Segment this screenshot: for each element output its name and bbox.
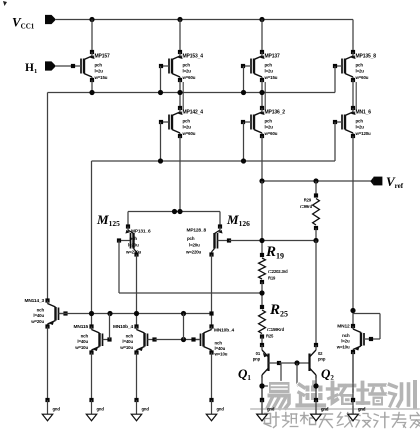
wire gate bus2 bbox=[92, 160, 336, 162]
svg-text:R19: R19 bbox=[268, 276, 276, 281]
svg-text:MP142_4: MP142_4 bbox=[183, 110, 204, 116]
wire M126 gate line bbox=[229, 240, 316, 242]
svg-text:MN10b_4: MN10b_4 bbox=[214, 328, 234, 334]
svg-text:l=2u: l=2u bbox=[265, 69, 274, 74]
svg-text:01: 01 bbox=[256, 351, 261, 356]
transistor MN115 bbox=[74, 324, 112, 355]
svg-text:Vref: Vref bbox=[386, 174, 404, 190]
svg-text:pnp: pnp bbox=[253, 357, 261, 362]
watermark big text yi-di-tuo-pei-xun bbox=[268, 382, 416, 409]
transistor MN114_3 bbox=[25, 298, 68, 329]
svg-text:MP131_6: MP131_6 bbox=[131, 229, 151, 235]
svg-text:l=2u: l=2u bbox=[183, 125, 192, 130]
bias line end terminal bbox=[209, 311, 213, 315]
svg-text:w=60u: w=60u bbox=[355, 75, 369, 80]
junction bus2-MP142_4 gate bbox=[158, 158, 163, 163]
transistor MP157 bbox=[71, 50, 110, 82]
svg-text:w=120u: w=120u bbox=[355, 131, 372, 136]
svg-text:MP137: MP137 bbox=[265, 54, 280, 60]
wire gate bus1 bbox=[48, 92, 336, 94]
wire M125 gate to R node bbox=[119, 292, 262, 294]
junction R19-R25 node bbox=[259, 290, 264, 295]
svg-text:gnd: gnd bbox=[142, 407, 150, 412]
svg-text:l=20u: l=20u bbox=[189, 243, 200, 248]
resistor R19 bbox=[259, 253, 289, 284]
svg-text:nch: nch bbox=[126, 334, 134, 339]
svg-text:nch: nch bbox=[215, 341, 223, 346]
wire MP136_2 drain bbox=[261, 136, 263, 181]
svg-text:w=10u: w=10u bbox=[119, 345, 133, 350]
ground under MN10b b bbox=[206, 398, 224, 421]
svg-text:gnd: gnd bbox=[97, 407, 105, 412]
label Q2 bbox=[321, 366, 334, 382]
wire MP136_2 gate stub bbox=[243, 122, 245, 161]
wire rail to MP137 bbox=[261, 20, 263, 53]
resistor R29 bbox=[300, 193, 319, 230]
svg-text:Q1: Q1 bbox=[238, 366, 251, 382]
junction bus1-MP137 drain bbox=[259, 90, 264, 95]
wire Q1 tie to collector bbox=[262, 385, 281, 387]
junction bus1-MP153_4 gate bbox=[158, 90, 163, 95]
wire M125 gate down bbox=[118, 241, 120, 294]
svg-text:gnd: gnd bbox=[53, 407, 61, 412]
svg-text:w=60u: w=60u bbox=[182, 131, 196, 136]
wire MP137 drain bbox=[261, 80, 263, 108]
svg-text:pch: pch bbox=[130, 236, 138, 241]
ground under MN12 bbox=[348, 398, 366, 421]
transistor MP142_4 bbox=[159, 106, 203, 138]
wire MP137 gate stub bbox=[243, 66, 245, 93]
wire Vref line bbox=[262, 180, 374, 182]
wire MN12 loop top bbox=[353, 313, 380, 315]
wire M126 drain down bbox=[211, 255, 213, 327]
svg-text:VCC1: VCC1 bbox=[12, 15, 35, 31]
ground under Q2 (over watermark) bbox=[311, 398, 329, 421]
svg-text:pch: pch bbox=[95, 63, 103, 68]
wire MN10b a source to gnd bbox=[136, 353, 138, 401]
transistor Q1 (pnp) bbox=[253, 343, 269, 378]
svg-text:r=2202.3rd: r=2202.3rd bbox=[268, 269, 288, 274]
svg-text:R29: R29 bbox=[304, 198, 312, 203]
junction bus1-MP153_4 drain bbox=[177, 90, 182, 95]
ground under Q1 bbox=[257, 398, 275, 421]
wire MN1_6 gate stub bbox=[334, 122, 336, 161]
wire R25 to Q1 bbox=[261, 337, 263, 346]
svg-text:gnd: gnd bbox=[358, 407, 366, 412]
junction Vref-R29 bbox=[313, 178, 318, 183]
svg-text:w=15u: w=15u bbox=[94, 75, 108, 80]
svg-text:w=60u: w=60u bbox=[182, 75, 196, 80]
ground under MN12 (over watermark) bbox=[348, 398, 366, 421]
port H1 bbox=[25, 61, 56, 75]
transistor MN1_6 bbox=[333, 106, 371, 138]
label Q1 bbox=[238, 366, 251, 382]
svg-text:pnp: pnp bbox=[318, 357, 326, 362]
wire M125 drain down bbox=[136, 255, 138, 327]
watermark small text she-pin-he-tian-xian-she-ji-zhuan-jia bbox=[264, 413, 420, 428]
svg-text:w=220u: w=220u bbox=[185, 250, 202, 255]
svg-text:pch: pch bbox=[187, 236, 195, 241]
junction bias-MN115 gate bbox=[107, 311, 112, 316]
label R25 bbox=[269, 302, 288, 319]
top-left scan artifact bbox=[3, 1, 7, 6]
wire MP157 drain bbox=[91, 80, 93, 93]
wire Q1 collector to gnd (over watermark) bbox=[259, 375, 264, 400]
svg-text:MN12: MN12 bbox=[337, 324, 350, 330]
wire Q2 tie to collector bbox=[297, 385, 316, 387]
wire MN12 source to gnd (over watermark) bbox=[352, 352, 354, 400]
svg-text:r=159Krd: r=159Krd bbox=[267, 327, 285, 332]
transistor MN12 bbox=[336, 324, 373, 355]
svg-text:gnd: gnd bbox=[217, 407, 225, 412]
label M125 bbox=[96, 212, 120, 228]
port Vref bbox=[370, 174, 403, 190]
wire Vref to R19 top bbox=[261, 181, 263, 255]
transistor MP136_2 bbox=[241, 106, 285, 138]
wire MN12 loop to gate bbox=[371, 338, 380, 340]
svg-text:w=220u: w=220u bbox=[125, 250, 142, 255]
wire MP135_8 drain bbox=[352, 80, 354, 108]
svg-text:MN1_6: MN1_6 bbox=[356, 110, 372, 116]
svg-text:MN10b_4: MN10b_4 bbox=[113, 324, 133, 330]
svg-text:MP157: MP157 bbox=[95, 54, 110, 60]
svg-text:MN115: MN115 bbox=[74, 324, 89, 330]
junction R19col-gateline bbox=[259, 238, 264, 243]
junction Q2 collector bbox=[313, 383, 318, 388]
resistor R25 bbox=[259, 305, 285, 339]
wire base line Q1-Q2 bbox=[279, 362, 310, 364]
port VCC1 bbox=[12, 15, 56, 31]
svg-text:w=15u: w=15u bbox=[264, 75, 278, 80]
svg-text:MP153_4: MP153_4 bbox=[183, 54, 204, 60]
svg-text:w=10u: w=10u bbox=[336, 345, 350, 350]
ground under MN10b a bbox=[131, 398, 149, 421]
junction tail a bbox=[172, 209, 177, 214]
wire H1 to gate bbox=[56, 65, 73, 67]
junction bus1-MP137 gate bbox=[241, 90, 246, 95]
svg-text:l=2u: l=2u bbox=[341, 339, 350, 344]
wire MN10b b source to gnd bbox=[211, 353, 213, 401]
svg-text:gnd: gnd bbox=[267, 407, 275, 412]
svg-text:pch: pch bbox=[183, 119, 191, 124]
transistor M125 (MP131_6) bbox=[117, 224, 151, 256]
transistor MP137 bbox=[241, 50, 280, 82]
svg-text:M126: M126 bbox=[226, 212, 250, 228]
svg-text:l=40u: l=40u bbox=[33, 313, 44, 318]
svg-text:nch: nch bbox=[342, 333, 350, 338]
wire VCC1 rail bbox=[56, 19, 353, 21]
svg-text:l=2u: l=2u bbox=[183, 69, 192, 74]
svg-text:MP136_2: MP136_2 bbox=[265, 110, 286, 116]
wire MN115 source to gnd bbox=[91, 353, 93, 401]
junction rail-MP153_4 bbox=[177, 17, 182, 22]
transistor MP135_8 bbox=[333, 50, 376, 82]
wire M126 source drop bbox=[219, 212, 221, 227]
label R19 bbox=[265, 244, 284, 261]
wire bus1 left drop to MN114 bbox=[47, 93, 49, 301]
svg-text:l=2u: l=2u bbox=[356, 125, 365, 130]
junction MN12 diode tap bbox=[350, 308, 355, 313]
junction rail-MP137 bbox=[259, 17, 264, 22]
ground under Q2 bbox=[311, 398, 329, 421]
svg-text:MP135_8: MP135_8 bbox=[356, 54, 377, 60]
svg-text:l=40u: l=40u bbox=[122, 339, 133, 344]
wire Q2 collector to gnd (over watermark) bbox=[313, 375, 318, 400]
wire MP153_4 drain bbox=[179, 80, 181, 108]
wire MN1_6 bulk bbox=[355, 82, 357, 110]
svg-text:pch: pch bbox=[265, 119, 273, 124]
wire MN1_6 drain long bbox=[352, 136, 354, 326]
wire MP142_4 drain to tail bbox=[179, 136, 181, 212]
wire rail to MP153_4 bbox=[179, 20, 181, 53]
wire MP142_4 bulk bbox=[182, 82, 184, 110]
svg-text:M125: M125 bbox=[96, 212, 120, 228]
junction R29 bottom node bbox=[313, 238, 318, 243]
wire MN115 gate up bbox=[109, 314, 111, 340]
wire Q1 collector to gnd bbox=[261, 375, 263, 400]
svg-text:w=60u: w=60u bbox=[264, 131, 278, 136]
svg-text:nch: nch bbox=[37, 308, 45, 313]
svg-text:MN114_3: MN114_3 bbox=[25, 298, 45, 304]
svg-text:l=40u: l=40u bbox=[215, 346, 226, 351]
junction Q1 collector bbox=[259, 383, 264, 388]
wire rail corner to MP135_8 bbox=[352, 20, 354, 53]
junction Vref-R19 column bbox=[259, 178, 264, 183]
svg-text:R25: R25 bbox=[266, 334, 274, 339]
junction tail b bbox=[177, 209, 182, 214]
wire MP135_8 gate stub bbox=[334, 66, 336, 93]
svg-text:R19: R19 bbox=[265, 244, 284, 261]
svg-text:r=99rd: r=99rd bbox=[300, 204, 313, 209]
wire node to Q2 bbox=[315, 241, 317, 346]
svg-text:nch: nch bbox=[81, 334, 89, 339]
svg-text:pch: pch bbox=[183, 63, 191, 68]
svg-text:l=20u: l=20u bbox=[128, 243, 139, 248]
wire R29 to node bbox=[315, 228, 317, 241]
wire gate tie up bbox=[183, 314, 185, 340]
wire Vref to R29 bbox=[315, 181, 317, 196]
junction bias-MN115 drain bbox=[89, 311, 94, 316]
wire R19 to R25 bbox=[261, 282, 263, 307]
wire M125 source drop bbox=[127, 212, 129, 227]
junction rail-MP157 bbox=[89, 17, 94, 22]
wire MN114 source to gnd bbox=[47, 327, 49, 401]
wire MP153_4 gate stub bbox=[160, 66, 162, 93]
wire MN12 loop right bbox=[379, 314, 381, 340]
wire Q2 base tie down bbox=[296, 363, 298, 386]
wire tail rail bbox=[128, 211, 220, 213]
transistor MN10b_4 a bbox=[113, 324, 157, 355]
wire MP142_4 gate stub bbox=[160, 122, 162, 161]
transistor MN10b_4 b bbox=[191, 324, 234, 356]
svg-text:l=2u: l=2u bbox=[356, 69, 365, 74]
svg-text:pch: pch bbox=[265, 63, 273, 68]
wire bus2 left drop to MN115 bbox=[91, 161, 93, 327]
svg-text:pch: pch bbox=[356, 119, 364, 124]
transistor MP153_4 bbox=[159, 50, 203, 82]
svg-text:02: 02 bbox=[318, 351, 323, 356]
svg-text:l=40u: l=40u bbox=[77, 339, 88, 344]
wire bias line bbox=[59, 313, 212, 315]
svg-text:w=10u: w=10u bbox=[74, 345, 88, 350]
junction base line bbox=[294, 360, 299, 365]
svg-text:l=2u: l=2u bbox=[265, 125, 274, 130]
wire MN12 source to gnd bbox=[352, 352, 354, 400]
svg-text:l=2u: l=2u bbox=[95, 69, 104, 74]
junction bus2-MP136_2 gate bbox=[241, 158, 246, 163]
transistor Q2 (pnp) bbox=[310, 343, 326, 378]
svg-text:MP128_8: MP128_8 bbox=[187, 228, 207, 234]
svg-text:w=20u: w=20u bbox=[30, 319, 44, 324]
watermark underline bbox=[251, 408, 419, 410]
svg-text:pch: pch bbox=[356, 63, 364, 68]
wire gate tie line bbox=[155, 339, 201, 341]
ground under Q1 (over watermark) bbox=[257, 398, 275, 421]
label M126 bbox=[226, 212, 250, 228]
junction gate tie bbox=[181, 337, 186, 342]
wire rail to MP157 bbox=[91, 20, 93, 53]
svg-text:H1: H1 bbox=[25, 62, 37, 75]
transistor M126 (MP128_8) bbox=[185, 224, 231, 256]
svg-text:w=10u: w=10u bbox=[214, 352, 228, 357]
svg-text:R25: R25 bbox=[269, 302, 288, 319]
wire Q2 collector to gnd bbox=[315, 375, 317, 400]
svg-text:gnd: gnd bbox=[321, 407, 329, 412]
wire Q1 base tie down bbox=[280, 363, 282, 386]
ground under MN115 bbox=[86, 398, 104, 421]
junction bias-M125 drain bbox=[134, 311, 139, 316]
ground under MN114 bbox=[42, 398, 60, 421]
junction bus1-MP157 bbox=[89, 90, 94, 95]
wire Q1 base lead bbox=[269, 361, 282, 365]
junction bias-gate tie bbox=[181, 311, 186, 316]
wire MP136_2 bulk bbox=[264, 82, 266, 110]
